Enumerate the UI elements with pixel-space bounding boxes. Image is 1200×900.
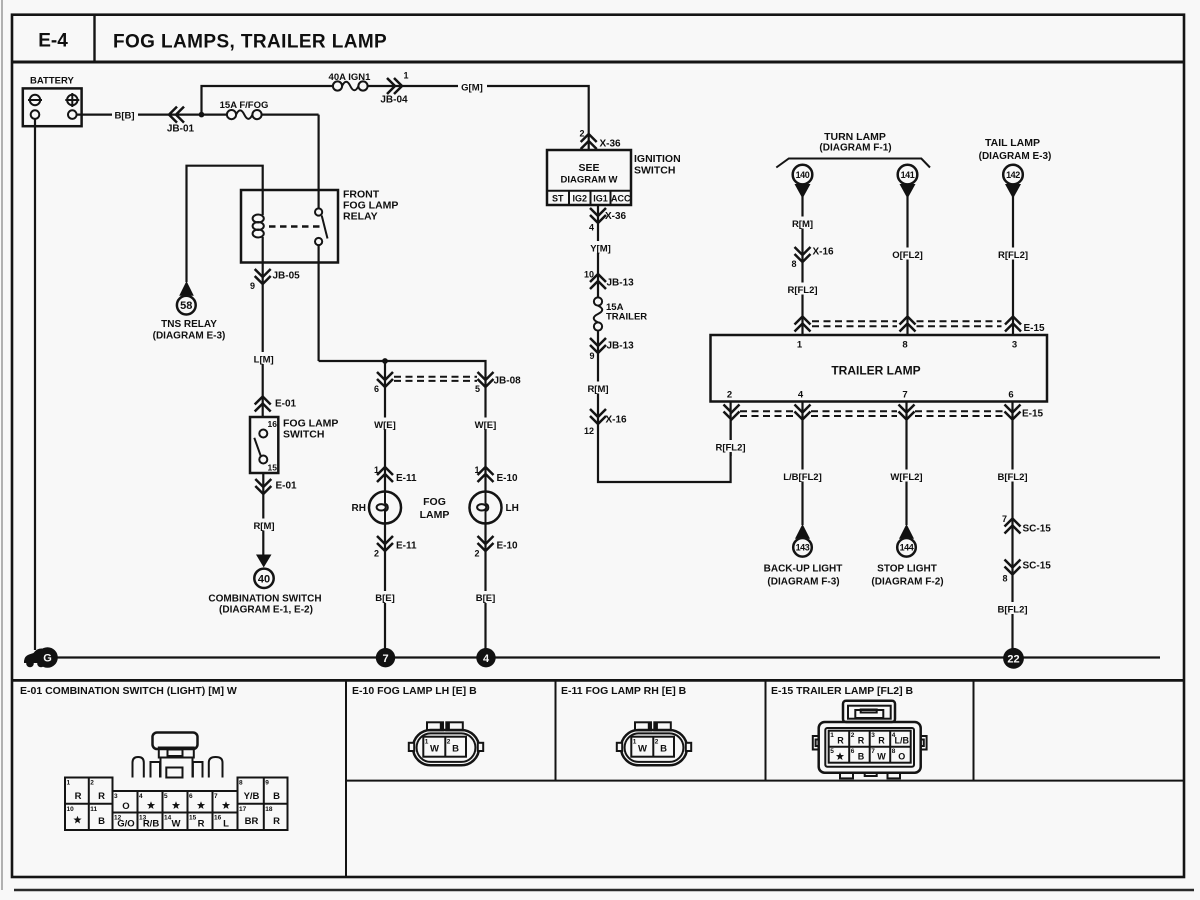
turn lamp bracket (776, 159, 930, 168)
wire trailer pin7 to stop light (905, 402, 907, 526)
wire fuse to relay contact (318, 115, 320, 209)
label W[E] RH (371, 418, 399, 430)
svg-text:18: 18 (265, 806, 273, 813)
svg-text:1: 1 (830, 732, 834, 739)
svg-text:LH: LH (506, 503, 519, 514)
wire RH lamp to ground bus (384, 524, 386, 650)
svg-text:1: 1 (425, 739, 429, 746)
svg-text:X-16: X-16 (606, 415, 628, 426)
node 7 (376, 648, 395, 667)
svg-text:L/B: L/B (895, 736, 910, 746)
divider E-11/E-15 (765, 680, 767, 780)
svg-text:E-11 FOG LAMP RH [E] B: E-11 FOG LAMP RH [E] B (561, 685, 687, 697)
svg-text:G: G (43, 653, 52, 665)
svg-text:B: B (858, 752, 865, 762)
connector E-10 pin2 (478, 536, 494, 551)
scan edge left (1, 0, 3, 890)
wire ignition IG1 down (597, 205, 599, 297)
svg-text:R[FL2]: R[FL2] (787, 285, 817, 296)
svg-text:O: O (122, 801, 129, 812)
wire relay output to fog lamps (319, 361, 486, 492)
svg-text:G/O: G/O (117, 819, 134, 830)
svg-text:R/B: R/B (143, 819, 160, 830)
E-4 cell divider (93, 15, 95, 62)
divider E-01/E-10 (345, 680, 347, 877)
svg-text:TRAILER: TRAILER (606, 312, 647, 323)
ground bus (55, 656, 1160, 658)
harness dashed pair trailer bottom (740, 410, 793, 412)
svg-text:B[E]: B[E] (476, 593, 496, 604)
divider E-10/E-11 (555, 680, 557, 780)
svg-text:7: 7 (1002, 514, 1007, 524)
svg-text:1: 1 (374, 465, 379, 475)
svg-text:9: 9 (265, 780, 269, 787)
svg-text:ACC: ACC (611, 194, 631, 204)
arrow to stop light (899, 524, 914, 539)
svg-text:O[FL2]: O[FL2] (892, 250, 923, 261)
E-15 pin grid (829, 731, 911, 763)
svg-text:FOG LAMPS, TRAILER LAMP: FOG LAMPS, TRAILER LAMP (113, 32, 387, 53)
svg-text:58: 58 (180, 300, 192, 312)
svg-text:E-15: E-15 (1024, 323, 1046, 334)
svg-text:1: 1 (797, 340, 803, 351)
connector JB-08 pin5 (478, 372, 494, 387)
svg-text:R[FL2]: R[FL2] (715, 443, 745, 454)
junction node fog lamps (382, 358, 388, 364)
svg-text:FOG: FOG (423, 496, 446, 508)
svg-text:4: 4 (798, 390, 804, 401)
svg-text:R: R (98, 791, 105, 802)
circle 144 (897, 538, 916, 557)
svg-text:X-36: X-36 (605, 211, 627, 222)
svg-text:E-10: E-10 (497, 473, 519, 484)
svg-text:5: 5 (164, 793, 168, 800)
connector JB-01 (169, 107, 184, 123)
svg-text:16: 16 (214, 814, 222, 821)
svg-text:(DIAGRAM F-3): (DIAGRAM F-3) (767, 577, 839, 588)
label W[FL2] (885, 470, 929, 482)
wire 142 to trailer lamp (1012, 196, 1014, 335)
svg-text:7: 7 (902, 390, 907, 401)
svg-text:11: 11 (90, 806, 97, 813)
svg-text:2: 2 (447, 739, 451, 746)
svg-text:6: 6 (374, 384, 379, 394)
svg-text:DIAGRAM W: DIAGRAM W (561, 174, 618, 185)
connector JB-13 pin10 (590, 274, 606, 289)
fuse 15A TRAILER (594, 297, 602, 305)
svg-text:140: 140 (796, 170, 810, 180)
svg-text:COMBINATION SWITCH: COMBINATION SWITCH (208, 594, 321, 605)
section divider (connector area) (12, 679, 1184, 682)
svg-text:4: 4 (483, 653, 490, 665)
svg-text:LAMP: LAMP (420, 509, 450, 521)
wire battery B+ to relay (77, 113, 319, 115)
svg-text:SC-15: SC-15 (1023, 561, 1052, 572)
connector JB-04 (387, 78, 402, 94)
wire 140 to trailer lamp (801, 196, 803, 335)
junction node (199, 112, 205, 118)
wire trailer pin2 down (R[FL2]) (729, 402, 731, 457)
node 22 (1003, 648, 1024, 669)
svg-text:JB-13: JB-13 (607, 278, 635, 289)
svg-text:B[FL2]: B[FL2] (997, 605, 1027, 616)
connector row bottom line (346, 780, 1184, 782)
E-01 pin grid right block (238, 778, 288, 831)
battery minus terminal (30, 95, 40, 105)
harness dashed pair JB-08 (394, 376, 477, 378)
label O[FL2] (888, 248, 927, 260)
svg-text:W[FL2]: W[FL2] (890, 472, 922, 483)
E-01 pin grid middle block (113, 791, 238, 830)
svg-text:16: 16 (268, 419, 278, 429)
svg-text:15: 15 (189, 814, 197, 821)
svg-text:JB-01: JB-01 (167, 124, 195, 135)
svg-text:B[E]: B[E] (375, 593, 395, 604)
wire relay coil to fog lamp switch (262, 263, 264, 418)
svg-text:3: 3 (871, 732, 875, 739)
svg-text:2: 2 (90, 780, 94, 787)
svg-text:8: 8 (791, 259, 796, 269)
svg-text:8: 8 (892, 748, 896, 755)
svg-text:E-10: E-10 (497, 541, 519, 552)
circle 58 (177, 296, 196, 315)
svg-text:B[B]: B[B] (114, 111, 134, 122)
relay contact bottom (315, 238, 322, 245)
svg-text:3: 3 (114, 793, 118, 800)
svg-text:R: R (878, 736, 885, 746)
label R[M] ignition col (584, 382, 612, 394)
E-01 wire colors row2 (73, 816, 81, 824)
connector X-36 pin2 (581, 134, 597, 149)
svg-text:(DIAGRAM E-1, E-2): (DIAGRAM E-1, E-2) (219, 605, 313, 616)
svg-text:O: O (898, 752, 905, 762)
svg-text:1: 1 (633, 739, 637, 746)
svg-text:BATTERY: BATTERY (30, 76, 74, 87)
connector X-36 pin4 (590, 208, 606, 223)
trailer lamp box (711, 335, 1048, 402)
svg-text:JB-08: JB-08 (494, 376, 522, 387)
label B[E] LH (473, 591, 499, 603)
connector E-15 drawing (813, 701, 927, 779)
svg-text:W: W (877, 752, 886, 762)
E-01 top tab (153, 733, 198, 750)
connector E-01 (above switch) (255, 397, 271, 412)
circle 142 (1003, 165, 1023, 185)
E-15 ears (813, 736, 819, 750)
circle 143 (793, 538, 812, 557)
svg-text:40A IGN1: 40A IGN1 (329, 72, 372, 83)
svg-text:E-15 TRAILER LAMP [FL2] B: E-15 TRAILER LAMP [FL2] B (771, 685, 914, 697)
svg-text:143: 143 (796, 543, 810, 553)
svg-text:40: 40 (258, 574, 270, 586)
svg-text:1: 1 (404, 71, 409, 81)
wire switch to combination switch (262, 473, 264, 555)
svg-text:8: 8 (902, 340, 907, 351)
svg-text:L/B[FL2]: L/B[FL2] (783, 472, 822, 483)
svg-text:15A F/FOG: 15A F/FOG (220, 100, 269, 111)
connector X-16 pin12 (590, 409, 606, 424)
label B[E] RH (372, 591, 398, 603)
connector JB-13 pin9 (590, 338, 606, 353)
svg-text:E-11: E-11 (396, 541, 417, 552)
svg-text:10: 10 (67, 806, 75, 813)
circle 141 (898, 165, 918, 185)
svg-text:9: 9 (589, 351, 594, 361)
label R[M] turn col (789, 217, 817, 229)
svg-text:X-36: X-36 (600, 139, 622, 150)
connector SC-15 pin8 (1005, 560, 1021, 575)
svg-text:4: 4 (589, 223, 594, 233)
svg-text:TAIL LAMP: TAIL LAMP (985, 137, 1040, 149)
wire battery to ground (left column) (34, 119, 36, 650)
svg-text:E-01 COMBINATION SWITCH (LIGHT: E-01 COMBINATION SWITCH (LIGHT) [M] W (20, 685, 237, 697)
svg-text:B: B (273, 791, 280, 802)
svg-text:R[FL2]: R[FL2] (998, 250, 1028, 261)
relay box (241, 190, 338, 263)
connector E-10 pin1 (478, 467, 494, 482)
svg-text:W: W (430, 744, 439, 755)
title bar bottom border (12, 61, 1184, 64)
label B[FL2] bottom (992, 602, 1034, 614)
relay coil wire (262, 190, 264, 215)
fuse 40A IGN1 (333, 81, 342, 90)
svg-text:2: 2 (474, 549, 479, 559)
trailer top chevrons E-15 (795, 317, 811, 332)
trailer bottom chevrons E-15 (724, 405, 740, 420)
svg-text:7: 7 (382, 653, 388, 665)
relay contact top (315, 208, 322, 215)
E-01 pin grid left block (65, 778, 113, 831)
battery B+ (23, 76, 82, 127)
svg-text:RH: RH (352, 503, 366, 514)
svg-text:3: 3 (1012, 340, 1017, 351)
relay coil (253, 215, 264, 223)
svg-text:8: 8 (1002, 574, 1007, 584)
svg-text:TURN LAMP: TURN LAMP (824, 131, 886, 143)
label L/B[FL2] (779, 470, 827, 482)
svg-text:4: 4 (139, 793, 143, 800)
svg-text:SEE: SEE (578, 162, 599, 174)
svg-text:R: R (75, 791, 82, 802)
connector E-11 drawing (617, 722, 691, 765)
connector JB-08 pin6 (377, 372, 393, 387)
svg-text:2: 2 (579, 129, 584, 139)
svg-text:E-15: E-15 (1022, 409, 1044, 420)
svg-text:R: R (837, 736, 844, 746)
E-15 top tab (843, 701, 895, 722)
svg-text:144: 144 (900, 543, 914, 553)
svg-text:ST: ST (552, 194, 564, 204)
svg-text:STOP LIGHT: STOP LIGHT (877, 564, 937, 575)
svg-text:6: 6 (1008, 390, 1013, 401)
svg-text:5: 5 (830, 748, 834, 755)
svg-text:6: 6 (189, 793, 193, 800)
fog lamp RH (369, 492, 401, 524)
svg-text:RELAY: RELAY (343, 211, 378, 223)
fog lamp LH (470, 492, 502, 524)
ignition switch box (547, 150, 631, 205)
arrow to combination switch (256, 555, 272, 568)
label R[FL2] tail col (994, 248, 1033, 260)
svg-text:141: 141 (901, 170, 915, 180)
svg-text:(DIAGRAM F-1): (DIAGRAM F-1) (819, 143, 891, 154)
svg-text:B: B (452, 744, 459, 755)
svg-text:E-4: E-4 (38, 31, 68, 52)
svg-text:B: B (98, 816, 105, 827)
ground symbol G (body ground) (24, 647, 58, 668)
svg-text:W[E]: W[E] (374, 420, 396, 431)
svg-text:2: 2 (374, 549, 379, 559)
svg-text:L[M]: L[M] (254, 355, 274, 366)
E-15 bottom tabs (840, 773, 853, 779)
svg-text:SC-15: SC-15 (1023, 524, 1052, 535)
svg-text:E-11: E-11 (396, 473, 417, 484)
svg-text:JB-05: JB-05 (273, 271, 301, 282)
svg-text:X-16: X-16 (813, 247, 835, 258)
connector E-10 drawing (409, 722, 483, 765)
label Y[M] (587, 241, 614, 253)
fuse 15A F/FOG (227, 110, 236, 119)
svg-text:BR: BR (245, 816, 259, 827)
connector E-01 drawing (65, 733, 288, 831)
svg-text:B: B (660, 744, 667, 755)
svg-text:17: 17 (239, 806, 247, 813)
svg-text:TNS RELAY: TNS RELAY (161, 319, 217, 330)
svg-text:SWITCH: SWITCH (634, 165, 675, 177)
svg-text:R: R (858, 736, 865, 746)
battery box (23, 88, 82, 126)
svg-text:9: 9 (250, 281, 255, 291)
arrow from 141 (900, 184, 916, 199)
svg-text:7: 7 (871, 748, 875, 755)
connector E-01 (below switch) (255, 479, 271, 494)
svg-text:(DIAGRAM E-3): (DIAGRAM E-3) (979, 151, 1052, 162)
arrow from TNS relay (179, 281, 194, 296)
svg-text:R[M]: R[M] (253, 521, 274, 532)
label B[FL2] top (992, 470, 1034, 482)
svg-text:G[M]: G[M] (461, 83, 483, 94)
scan edge bottom (14, 889, 1194, 891)
relay blade (322, 216, 328, 239)
svg-text:14: 14 (164, 814, 172, 821)
label R[M] (250, 519, 278, 531)
label G[M] (458, 80, 487, 92)
svg-text:R[M]: R[M] (587, 384, 608, 395)
svg-text:R: R (198, 819, 205, 830)
svg-text:142: 142 (1006, 170, 1020, 180)
svg-text:(DIAGRAM E-3): (DIAGRAM E-3) (153, 331, 226, 342)
E-15 body (819, 722, 921, 773)
connector JB-05 (255, 269, 271, 284)
fog lamp switch (250, 417, 278, 473)
svg-text:6: 6 (851, 748, 855, 755)
svg-text:W: W (638, 744, 647, 755)
svg-text:R: R (273, 816, 280, 827)
svg-text:2: 2 (727, 390, 732, 401)
connector X-16 pin8 (795, 247, 811, 262)
wire LH lamp to ground bus (484, 524, 486, 650)
arrow to back-up light (795, 524, 810, 539)
divider E-15/empty (973, 680, 975, 780)
svg-text:IG1: IG1 (593, 194, 608, 204)
svg-text:JB-13: JB-13 (607, 341, 635, 352)
label W[E] LH (472, 418, 500, 430)
svg-text:W[E]: W[E] (475, 420, 497, 431)
svg-text:IG2: IG2 (573, 194, 588, 204)
svg-text:2: 2 (851, 732, 855, 739)
wire junction up to IGN feed (202, 86, 589, 150)
svg-text:B[FL2]: B[FL2] (997, 472, 1027, 483)
harness dashed pair trailer top (812, 320, 897, 322)
wire trailer pin6 to ground bus (1011, 402, 1013, 650)
svg-text:15: 15 (268, 463, 278, 473)
battery post circles (31, 110, 40, 119)
E-01 pillars (133, 757, 144, 778)
label B[B] (112, 108, 138, 120)
label R[FL2] turn col (783, 283, 822, 295)
node 4 (476, 648, 495, 667)
connector SC-15 pin7 (1005, 519, 1021, 534)
circle 140 (793, 165, 813, 185)
svg-text:BACK-UP LIGHT: BACK-UP LIGHT (764, 564, 843, 575)
svg-text:R[M]: R[M] (792, 219, 813, 230)
arrow from 142 (1005, 184, 1021, 199)
wire RH fog lamp branch (384, 361, 386, 492)
svg-text:(DIAGRAM F-2): (DIAGRAM F-2) (871, 577, 943, 588)
svg-text:5: 5 (475, 384, 480, 394)
svg-text:W: W (172, 819, 181, 830)
svg-text:1: 1 (474, 465, 479, 475)
relay dashed link (269, 225, 322, 228)
battery plus terminal (67, 95, 77, 105)
TNS relay branch (187, 166, 263, 282)
connector E-11 pin1 (377, 467, 393, 482)
svg-text:12: 12 (584, 426, 594, 436)
svg-text:8: 8 (239, 780, 243, 787)
arrow from 140 (795, 184, 811, 199)
svg-text:TRAILER LAMP: TRAILER LAMP (831, 364, 920, 378)
svg-text:2: 2 (655, 739, 659, 746)
svg-text:22: 22 (1007, 653, 1019, 665)
wire fuse to trailer pin2 (598, 331, 731, 482)
svg-text:L: L (223, 819, 229, 830)
wire trailer pin4 to back-up light (801, 402, 803, 526)
svg-text:IGNITION: IGNITION (634, 153, 681, 165)
svg-text:Y[M]: Y[M] (590, 244, 611, 255)
svg-text:E-01: E-01 (275, 399, 297, 410)
circle 40 (254, 569, 273, 588)
svg-text:SWITCH: SWITCH (283, 429, 324, 441)
svg-text:Y/B: Y/B (244, 791, 260, 802)
wire 141 to trailer lamp (906, 196, 908, 335)
svg-text:E-10 FOG LAMP LH [E] B: E-10 FOG LAMP LH [E] B (352, 685, 477, 697)
svg-text:JB-04: JB-04 (380, 95, 408, 106)
svg-text:7: 7 (214, 793, 218, 800)
svg-text:1: 1 (67, 780, 71, 787)
svg-text:10: 10 (584, 270, 594, 280)
label L[M] (250, 352, 277, 364)
front fog lamp relay (241, 189, 398, 263)
connector E-11 pin2 (377, 536, 393, 551)
wire relay output down (318, 245, 320, 361)
svg-text:E-01: E-01 (276, 481, 298, 492)
